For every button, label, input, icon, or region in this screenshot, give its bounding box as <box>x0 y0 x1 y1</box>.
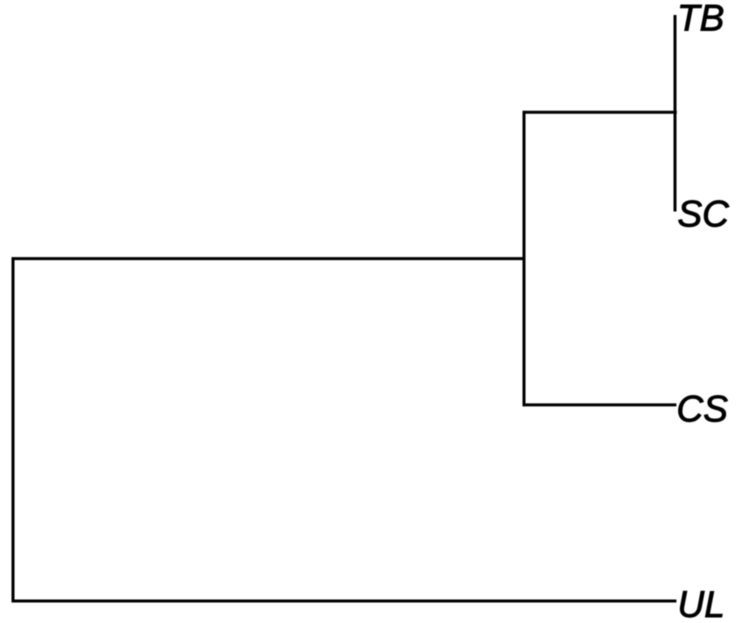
wire: horizontal branch to leaf CS <box>523 403 677 406</box>
svg-text:TB: TB <box>677 0 724 39</box>
svg-text:UL: UL <box>678 584 725 623</box>
svg-text:CS: CS <box>677 389 729 430</box>
svg-text:SC: SC <box>678 194 730 235</box>
wire: horizontal branch from root to node (TB,SC)-CS <box>12 257 526 260</box>
wire: horizontal branch to leaf UL <box>12 600 677 603</box>
wire: vertical connector joining leaves TB and SC (node TB-SC) <box>674 15 677 212</box>
wire: horizontal branch from node TB-SC to node (TB,SC)-CS <box>523 111 677 114</box>
wire: vertical connector at node (TB,SC)-CS <box>523 111 526 406</box>
wire: root vertical connector <box>12 257 15 602</box>
